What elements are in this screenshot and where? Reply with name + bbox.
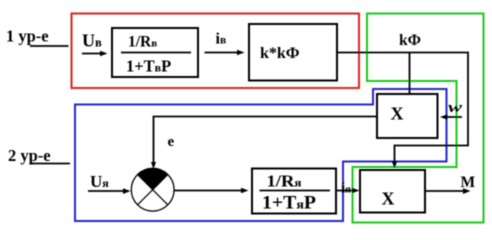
wire: iв arrow xyxy=(205,52,240,54)
wire: stub from label 1 xyxy=(30,45,69,47)
wire: kФ branch down into emf multiplier xyxy=(409,53,411,95)
wire: kФ net from k*kФ output, right and down to torque multiplier xyxy=(337,53,468,164)
svg-text:M: M xyxy=(461,174,476,191)
red group box equation 1 xyxy=(72,14,360,89)
wire: M output arrow xyxy=(425,190,465,192)
svg-text:1+TяP: 1+TяP xyxy=(262,194,316,214)
wire: iя arrow into X2 xyxy=(336,190,355,192)
svg-text:1 ур-е: 1 ур-е xyxy=(6,27,49,46)
svg-text:X: X xyxy=(391,104,404,124)
svg-text:w: w xyxy=(448,100,462,116)
summing junction xyxy=(131,168,174,211)
wire: Uя input arrow xyxy=(88,190,125,192)
green group box (kФ net and torque multiplier) xyxy=(353,14,484,223)
wire: e feedback from X1 left to summing junction xyxy=(154,117,378,164)
svg-text:e: e xyxy=(168,134,175,150)
wire: junction output to armature block xyxy=(175,190,244,192)
block X1: emf multiplier xyxy=(377,94,438,138)
svg-text:kФ: kФ xyxy=(399,32,421,49)
wire: w input arrow into X1 xyxy=(444,116,462,118)
svg-text:k*kФ: k*kФ xyxy=(260,45,300,62)
block W3: armature transfer function 1/Rя/(1+TяP) xyxy=(252,169,336,214)
block W2: k*kФ gain xyxy=(249,24,337,81)
block X2: torque multiplier xyxy=(360,170,425,213)
wire: Uв input arrow xyxy=(82,53,102,55)
blue group box equation 2 xyxy=(75,89,447,221)
block W1: field transfer function 1/Rв/(1+TвP) xyxy=(112,28,198,77)
svg-text:X: X xyxy=(382,189,395,209)
svg-text:1+TвP: 1+TвP xyxy=(126,57,171,76)
svg-text:2 ур-е: 2 ур-е xyxy=(8,146,51,165)
wire: stub from label 2 xyxy=(30,163,70,165)
